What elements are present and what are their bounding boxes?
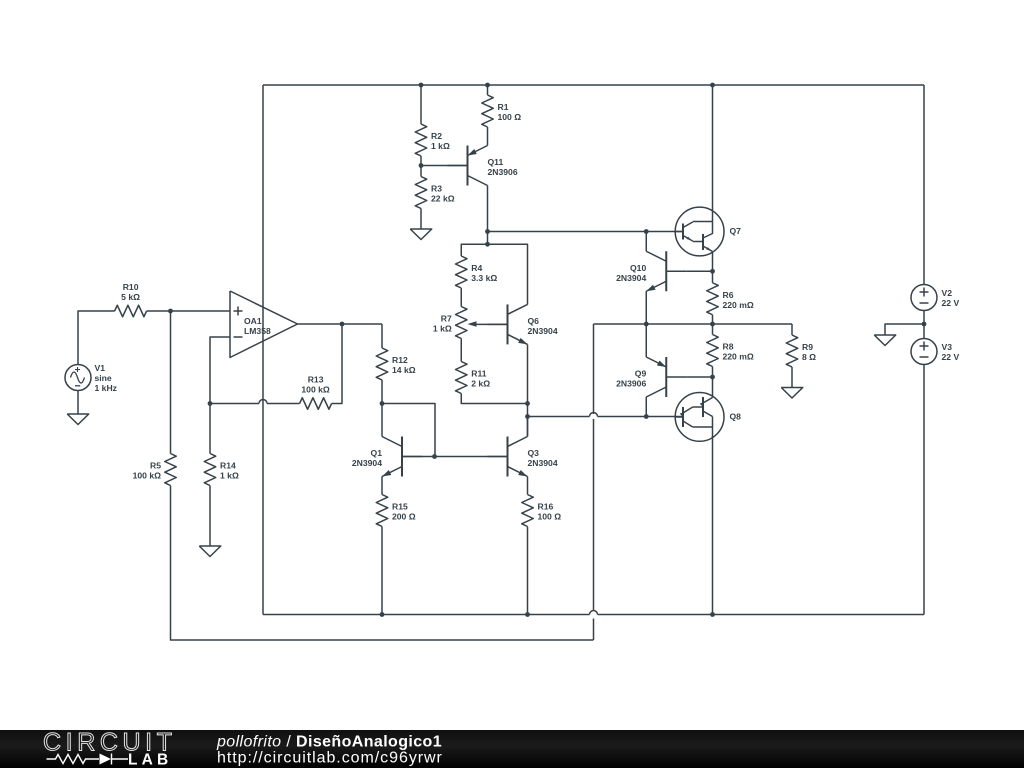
wire Q9 emitter up bbox=[645, 324, 647, 357]
resistor R8 bbox=[707, 335, 754, 367]
wire Q8 collector down bbox=[712, 436, 714, 615]
svg-text:R14: R14 bbox=[220, 461, 236, 471]
svg-text:R10: R10 bbox=[123, 282, 139, 292]
resistor R6 bbox=[707, 283, 754, 315]
wire R8 to node bbox=[712, 367, 714, 378]
svg-text:22 V: 22 V bbox=[942, 352, 960, 362]
wire box stub bbox=[487, 232, 489, 245]
svg-text:R11: R11 bbox=[471, 369, 487, 379]
svg-text:1 kΩ: 1 kΩ bbox=[220, 471, 239, 481]
resistor R13 bbox=[300, 375, 332, 410]
wire top +V rail bbox=[263, 84, 924, 86]
svg-text:100 kΩ: 100 kΩ bbox=[301, 385, 330, 395]
junction node 23 bbox=[710, 612, 715, 617]
wire R14 top bbox=[209, 404, 211, 454]
potentiometer R7 bbox=[433, 307, 508, 339]
resistor R11 bbox=[456, 362, 491, 394]
resistor R9 bbox=[786, 335, 816, 367]
wire Q10 emitter down bbox=[645, 291, 647, 324]
wire R4-R7 link bbox=[460, 288, 462, 307]
wire R6 to out rail bbox=[712, 315, 714, 324]
voltage source V3 bbox=[911, 339, 959, 365]
svg-text:Q10: Q10 bbox=[630, 263, 646, 273]
wire R2-R3 node bbox=[420, 156, 422, 177]
wire Q6 emitter down bbox=[527, 345, 529, 404]
resistor R5 bbox=[133, 454, 177, 486]
wire Q10 collector up bbox=[645, 232, 647, 252]
svg-text:2N3906: 2N3906 bbox=[616, 379, 646, 389]
transistor Q1 2N3904 bbox=[352, 437, 422, 477]
junction node 14 bbox=[525, 401, 530, 406]
svg-text:1 kHz: 1 kHz bbox=[95, 383, 117, 393]
resistor R14 bbox=[204, 454, 239, 486]
svg-text:220 mΩ: 220 mΩ bbox=[723, 352, 754, 362]
wire R4 box top bbox=[461, 244, 527, 304]
svg-text:100 Ω: 100 Ω bbox=[538, 512, 562, 522]
junction node 3 bbox=[710, 83, 715, 88]
footer bar bbox=[0, 730, 1024, 768]
wire Q7 emitter to node bbox=[712, 252, 714, 272]
wire R7-R11 link bbox=[460, 339, 462, 362]
wire op-amp output bbox=[298, 323, 383, 325]
wire node link bbox=[527, 404, 529, 437]
wire -input bbox=[210, 337, 230, 404]
junction node 17 bbox=[208, 401, 213, 406]
svg-text:R2: R2 bbox=[431, 131, 442, 141]
svg-text:2 kΩ: 2 kΩ bbox=[471, 379, 490, 389]
svg-text:2N3906: 2N3906 bbox=[488, 167, 518, 177]
wire ground stub V supplies bbox=[885, 324, 924, 335]
wire Q1 emitter to R15 bbox=[381, 477, 383, 495]
wire bias to Q8 base bbox=[528, 416, 590, 418]
transistor Q6 2N3904 bbox=[488, 304, 558, 344]
junction node 18 bbox=[340, 322, 345, 327]
svg-text:http://circuitlab.com/c96yrwr: http://circuitlab.com/c96yrwr bbox=[217, 750, 443, 767]
wire node to R6 bbox=[712, 271, 714, 283]
wire Q11 collector down bbox=[487, 186, 489, 232]
wire R5 top bbox=[170, 311, 172, 454]
junction node 7 bbox=[644, 229, 649, 234]
svg-text:100 Ω: 100 Ω bbox=[498, 112, 522, 122]
wire output to R12 bbox=[381, 324, 383, 348]
svg-text:V2: V2 bbox=[942, 288, 953, 298]
junction node 5 bbox=[419, 163, 424, 168]
resistor R1 bbox=[482, 95, 521, 127]
wire R3 to ground bbox=[420, 209, 422, 230]
resistor R2 bbox=[415, 124, 450, 156]
wire Q10 base bbox=[686, 270, 712, 272]
wire output feedback drop bbox=[593, 324, 595, 414]
junction node 6 bbox=[485, 229, 490, 234]
svg-text:R7: R7 bbox=[441, 314, 452, 324]
op-amp OA1 LM358 bbox=[230, 291, 298, 358]
resistor R16 bbox=[522, 495, 561, 527]
svg-text:V3: V3 bbox=[942, 342, 953, 352]
wire node to Q1 base link bbox=[382, 404, 435, 457]
junction node 22 bbox=[525, 612, 530, 617]
svg-text:R9: R9 bbox=[802, 342, 813, 352]
svg-text:22 kΩ: 22 kΩ bbox=[431, 194, 455, 204]
junction node 1 bbox=[419, 83, 424, 88]
wire Q9 collector down bbox=[645, 397, 647, 417]
junction node 4 bbox=[168, 309, 173, 314]
darlington transistor Q8 bbox=[675, 393, 741, 442]
ground GND R14 bbox=[199, 486, 221, 557]
svg-text:5 kΩ: 5 kΩ bbox=[121, 292, 140, 302]
svg-text:LM358: LM358 bbox=[244, 326, 271, 336]
svg-text:Q1: Q1 bbox=[371, 448, 383, 458]
wire left supply vertical bbox=[262, 85, 264, 615]
ground GND supplies bbox=[874, 335, 896, 346]
resistor R15 bbox=[376, 495, 415, 527]
wire V1 to R10 bbox=[78, 311, 115, 365]
wire feedback node to R13 bbox=[210, 403, 259, 405]
wire R5 bottom to feedback bbox=[171, 486, 594, 641]
wire R12 to node bbox=[381, 380, 383, 404]
svg-text:2N3904: 2N3904 bbox=[528, 326, 558, 336]
transistor Q3 2N3904 bbox=[488, 437, 558, 477]
svg-text:R13: R13 bbox=[308, 375, 324, 385]
junction node 13 bbox=[644, 414, 649, 419]
wire Q1-Q3 base bbox=[402, 456, 508, 458]
ground GND R9 bbox=[781, 388, 803, 399]
wire Q1 collector bbox=[381, 404, 383, 437]
svg-text:14 kΩ: 14 kΩ bbox=[392, 365, 416, 375]
svg-text:LAB: LAB bbox=[128, 752, 172, 768]
svg-text:1 kΩ: 1 kΩ bbox=[431, 141, 450, 151]
svg-text:R15: R15 bbox=[392, 502, 408, 512]
wire R15 to rail bbox=[381, 527, 383, 615]
wire R11 bottom bbox=[461, 394, 527, 404]
wire Q8 emitter up bbox=[712, 377, 714, 398]
wire node to Q11 base bbox=[421, 165, 468, 167]
svg-text:R16: R16 bbox=[538, 502, 554, 512]
svg-text:pollofrito / DiseñoAnalogico1: pollofrito / DiseñoAnalogico1 bbox=[216, 734, 442, 751]
svg-text:R12: R12 bbox=[392, 355, 408, 365]
transistor Q9 2N3906 bbox=[616, 357, 686, 397]
ground GND V1 bbox=[67, 391, 89, 425]
junction node 21 bbox=[380, 612, 385, 617]
svg-text:3.3 kΩ: 3.3 kΩ bbox=[471, 273, 497, 283]
ground GND R3 bbox=[410, 229, 432, 240]
wire out rail bbox=[594, 323, 793, 325]
wire V2-V3 link bbox=[923, 311, 925, 339]
svg-text:220 mΩ: 220 mΩ bbox=[723, 300, 754, 310]
wire R16 to rail bbox=[527, 527, 529, 615]
wire Q7 collector bbox=[712, 85, 714, 234]
wire Q9 base bbox=[686, 376, 712, 378]
svg-text:Q6: Q6 bbox=[528, 316, 540, 326]
resistor R4 bbox=[456, 256, 498, 288]
voltage source V1 sine bbox=[65, 363, 117, 393]
svg-text:200 Ω: 200 Ω bbox=[392, 512, 416, 522]
svg-text:Q7: Q7 bbox=[730, 226, 742, 236]
junction node 9 bbox=[644, 322, 649, 327]
wire right V2 drop bbox=[923, 85, 925, 285]
wire R1 top bbox=[487, 85, 489, 95]
svg-text:R1: R1 bbox=[498, 102, 509, 112]
svg-text:100 kΩ: 100 kΩ bbox=[133, 471, 162, 481]
svg-text:2N3904: 2N3904 bbox=[352, 458, 382, 468]
wire out rail to R9 bbox=[791, 324, 793, 335]
wire R2 top bbox=[420, 85, 422, 124]
transistor Q11 2N3906 bbox=[448, 146, 518, 186]
svg-text:R4: R4 bbox=[471, 263, 482, 273]
svg-text:R5: R5 bbox=[150, 461, 161, 471]
svg-text:1 kΩ: 1 kΩ bbox=[433, 324, 452, 334]
transistor Q10 2N3904 bbox=[616, 251, 686, 291]
junction node 12 bbox=[710, 375, 715, 380]
wire Q3 collector bbox=[527, 417, 529, 437]
junction node 2 bbox=[485, 83, 490, 88]
svg-text:sine: sine bbox=[95, 373, 112, 383]
junction node 19 bbox=[432, 454, 437, 459]
voltage source V2 bbox=[911, 285, 959, 311]
wire R13 to output bbox=[332, 324, 342, 404]
svg-text:Q9: Q9 bbox=[635, 369, 647, 379]
svg-text:V1: V1 bbox=[95, 363, 106, 373]
svg-text:Q11: Q11 bbox=[488, 157, 504, 167]
svg-text:Q3: Q3 bbox=[528, 448, 540, 458]
resistor R3 bbox=[415, 177, 454, 209]
svg-text:R8: R8 bbox=[723, 342, 734, 352]
svg-text:R6: R6 bbox=[723, 290, 734, 300]
resistor R10 bbox=[115, 282, 147, 317]
wire R10 to +input bbox=[147, 310, 230, 312]
svg-text:22 V: 22 V bbox=[942, 298, 960, 308]
junction node 20 bbox=[485, 242, 490, 247]
junction node 8 bbox=[710, 269, 715, 274]
darlington transistor Q7 bbox=[675, 207, 741, 256]
logo resistor-diode symbol bbox=[47, 754, 129, 765]
wire bottom -V rail bbox=[263, 614, 590, 616]
svg-text:OA1: OA1 bbox=[244, 316, 262, 326]
svg-text:8 Ω: 8 Ω bbox=[802, 352, 816, 362]
wire Q11 to Q7 base bbox=[488, 231, 684, 233]
junction node 16 bbox=[380, 401, 385, 406]
wire output feedback drop 3 bbox=[593, 619, 595, 641]
wire Q3 emitter to R16 bbox=[527, 477, 529, 495]
svg-text:Q8: Q8 bbox=[730, 412, 742, 422]
wire R1 to Q11 emitter bbox=[487, 127, 489, 146]
wire R9 to ground bbox=[791, 367, 793, 388]
wire output feedback drop 2 bbox=[593, 419, 595, 611]
svg-text:2N3904: 2N3904 bbox=[616, 273, 646, 283]
junction node 15 bbox=[525, 414, 530, 419]
junction node 10 bbox=[710, 322, 715, 327]
resistor R12 bbox=[376, 348, 415, 380]
svg-text:2N3904: 2N3904 bbox=[528, 458, 558, 468]
junction node 11 bbox=[922, 322, 927, 327]
svg-text:R3: R3 bbox=[431, 184, 442, 194]
wire R8 top bbox=[712, 324, 714, 335]
wire V3 to bottom rail bbox=[923, 365, 925, 615]
